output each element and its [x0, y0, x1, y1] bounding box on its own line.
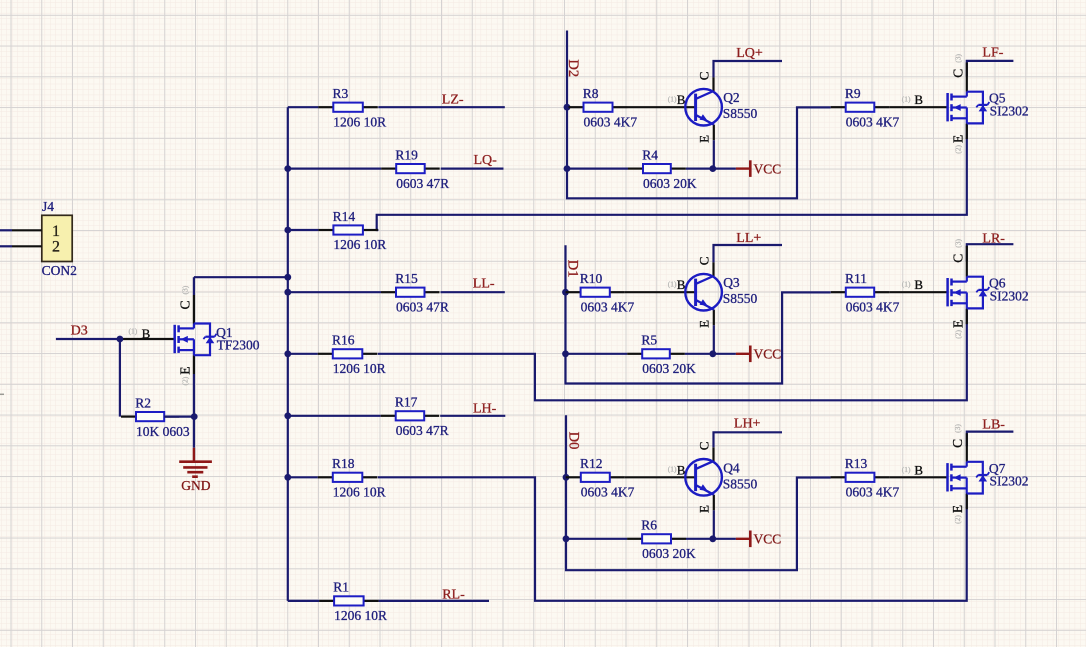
- svg-text:VCC: VCC: [754, 532, 782, 547]
- svg-text:(1): (1): [129, 327, 138, 336]
- wire base lead: [628, 106, 696, 108]
- transistor Q7 SI2302 (N-MOSFET): [948, 462, 990, 494]
- svg-text:1206 10R: 1206 10R: [333, 237, 386, 252]
- svg-text:LL-: LL-: [473, 277, 495, 292]
- svg-text:(3): (3): [953, 424, 962, 433]
- svg-text:S8550: S8550: [723, 291, 758, 306]
- svg-text:B: B: [677, 92, 686, 107]
- junction: [564, 165, 571, 172]
- resistor R13: [831, 473, 890, 482]
- wire: [288, 168, 381, 170]
- svg-text:R11: R11: [845, 271, 867, 286]
- resistor R12: [566, 473, 625, 482]
- wire gate lead: [889, 106, 948, 108]
- svg-text:(2): (2): [953, 144, 962, 153]
- svg-text:C: C: [950, 439, 965, 448]
- wire (edge stub): [0, 393, 4, 395]
- power VCC: [713, 160, 781, 177]
- wire: [377, 229, 379, 231]
- svg-text:(2): (2): [180, 376, 189, 385]
- wire: [164, 416, 194, 418]
- svg-text:GND: GND: [181, 478, 210, 493]
- junction: [709, 350, 716, 357]
- svg-text:0603 4K7: 0603 4K7: [846, 299, 900, 314]
- svg-text:C: C: [177, 300, 192, 309]
- wire: [685, 353, 713, 355]
- svg-text:R16: R16: [332, 333, 355, 348]
- wire: [379, 600, 489, 602]
- svg-text:E: E: [696, 320, 711, 328]
- resistor R6: [627, 534, 686, 543]
- svg-text:0603 4K7: 0603 4K7: [846, 485, 900, 500]
- svg-text:0603 47R: 0603 47R: [396, 423, 449, 438]
- wire: [288, 106, 319, 108]
- svg-text:R9: R9: [845, 86, 861, 101]
- wire MOSFET drain pin: [966, 246, 968, 277]
- wire: [193, 277, 195, 295]
- svg-text:TF2300: TF2300: [217, 338, 260, 353]
- resistor R17: [381, 411, 440, 420]
- svg-text:R15: R15: [395, 271, 418, 286]
- ground GND: [179, 448, 212, 493]
- svg-text:B: B: [677, 277, 686, 292]
- svg-text:0603 47R: 0603 47R: [396, 299, 449, 314]
- wire collector to net: [714, 61, 783, 77]
- resistor R1: [319, 596, 379, 605]
- junction: [563, 535, 570, 542]
- svg-text:R14: R14: [333, 209, 356, 224]
- svg-text:C: C: [696, 72, 711, 81]
- svg-text:LH-: LH-: [473, 402, 497, 417]
- svg-text:LZ-: LZ-: [442, 93, 464, 108]
- svg-text:0603 20K: 0603 20K: [642, 361, 696, 376]
- wire emitter: [713, 140, 715, 168]
- svg-text:(2): (2): [953, 515, 962, 524]
- svg-text:R18: R18: [332, 456, 355, 471]
- svg-text:(1): (1): [668, 94, 677, 103]
- svg-text:(1): (1): [668, 465, 677, 474]
- junction: [709, 535, 716, 542]
- svg-text:LH+: LH+: [734, 417, 761, 432]
- svg-text:(1): (1): [902, 465, 911, 474]
- wire: [566, 538, 627, 540]
- junction: [284, 474, 291, 481]
- svg-text:1206 10R: 1206 10R: [333, 485, 386, 500]
- svg-text:0603 4K7: 0603 4K7: [581, 485, 635, 500]
- resistor R8: [569, 103, 628, 112]
- svg-text:LL+: LL+: [736, 231, 761, 246]
- svg-text:LQ-: LQ-: [474, 153, 498, 168]
- wire: [440, 415, 505, 417]
- wire Q1 gate lead: [120, 338, 175, 340]
- wire collector pin: [712, 447, 714, 461]
- transistor Q5 SI2302 (N-MOSFET): [948, 92, 990, 124]
- transistor Q4 S8550 (PNP): [685, 459, 722, 496]
- wire R14 to Q5 source rail: [377, 124, 967, 230]
- svg-text:D1: D1: [565, 260, 581, 278]
- svg-text:C: C: [950, 254, 965, 263]
- svg-text:R4: R4: [642, 147, 658, 162]
- svg-text:0603 47R: 0603 47R: [396, 176, 449, 191]
- svg-text:D3: D3: [71, 324, 88, 339]
- wire: [288, 229, 319, 231]
- wire: [567, 168, 628, 170]
- wire Q1 drain pin: [193, 295, 195, 324]
- svg-text:R19: R19: [395, 147, 418, 162]
- svg-text:R10: R10: [580, 271, 603, 286]
- svg-text:0603 4K7: 0603 4K7: [846, 114, 900, 129]
- svg-text:RL-: RL-: [442, 588, 465, 603]
- svg-text:1206 10R: 1206 10R: [333, 114, 386, 129]
- wire to R2: [119, 339, 121, 417]
- wire emitter pin: [713, 310, 715, 326]
- svg-text:R8: R8: [583, 86, 599, 101]
- svg-text:S8550: S8550: [723, 106, 758, 121]
- svg-text:B: B: [914, 92, 923, 107]
- wire emitter pin: [713, 125, 715, 141]
- wire: [567, 106, 569, 108]
- svg-text:LF-: LF-: [982, 46, 1003, 61]
- svg-text:LR-: LR-: [982, 232, 1005, 247]
- svg-text:CON2: CON2: [42, 263, 77, 278]
- svg-text:E: E: [950, 320, 965, 328]
- power VCC: [713, 346, 781, 363]
- wire emitter: [713, 325, 715, 354]
- wire stage loop: [566, 415, 831, 570]
- wire base lead: [625, 291, 696, 293]
- resistor R4: [628, 164, 686, 173]
- wire R18 to Q7 source rail: [378, 477, 967, 601]
- wire: [288, 415, 381, 417]
- svg-text:D0: D0: [566, 432, 582, 450]
- transistor Q2 S8550 (PNP): [685, 89, 722, 126]
- svg-text:R2: R2: [135, 395, 151, 410]
- svg-text:C: C: [950, 69, 965, 78]
- svg-text:D2: D2: [565, 59, 581, 77]
- svg-text:(3): (3): [953, 238, 962, 247]
- junction: [284, 227, 291, 234]
- transistor Q6 SI2302 (N-MOSFET): [948, 277, 990, 309]
- junction: [191, 413, 198, 420]
- svg-text:1206 10R: 1206 10R: [333, 361, 386, 376]
- svg-text:E: E: [177, 367, 192, 375]
- wire: [686, 538, 713, 540]
- svg-text:LB-: LB-: [982, 417, 1005, 432]
- resistor R18: [318, 473, 378, 482]
- svg-text:R17: R17: [395, 395, 418, 410]
- svg-text:SI2302: SI2302: [990, 288, 1029, 303]
- wire: [564, 291, 566, 293]
- wire: [566, 353, 628, 355]
- svg-text:2: 2: [52, 238, 60, 255]
- wire Q1 drain to bus: [194, 276, 288, 278]
- wire: [288, 600, 319, 602]
- wire drain to net: [967, 61, 1014, 76]
- wire: [441, 291, 505, 293]
- resistor R10: [566, 288, 625, 297]
- svg-text:(2): (2): [953, 329, 962, 338]
- wire R16 to Q6 source rail: [378, 309, 967, 400]
- wire main bus vertical: [287, 107, 289, 601]
- wire: [441, 168, 504, 170]
- svg-text:E: E: [950, 505, 965, 513]
- wire MOSFET source pin: [966, 494, 968, 510]
- wire emitter pin: [713, 495, 715, 511]
- wire: [288, 476, 318, 478]
- svg-text:R6: R6: [641, 518, 657, 533]
- transistor Q1 TF2300 (N-MOSFET): [175, 324, 217, 356]
- wire: [288, 291, 381, 293]
- wire collector pin: [712, 262, 714, 276]
- svg-text:R12: R12: [580, 456, 603, 471]
- resistor R16: [318, 349, 378, 358]
- junction: [284, 350, 291, 357]
- wire collector to net: [714, 432, 783, 447]
- wire collector pin: [712, 77, 714, 91]
- junction: [562, 350, 569, 357]
- resistor R3: [318, 103, 378, 112]
- svg-text:R5: R5: [641, 333, 657, 348]
- svg-text:(3): (3): [953, 53, 962, 62]
- wire drain to net: [967, 244, 1014, 261]
- wire MOSFET source pin: [966, 123, 968, 139]
- junction: [284, 274, 291, 281]
- svg-text:Q2: Q2: [723, 90, 740, 105]
- svg-text:SI2302: SI2302: [990, 474, 1029, 489]
- junction: [563, 474, 570, 481]
- svg-text:S8550: S8550: [723, 476, 758, 491]
- wire gate lead: [889, 476, 947, 478]
- resistor R5: [627, 349, 685, 358]
- resistor R15: [381, 288, 440, 297]
- svg-text:C: C: [696, 257, 711, 266]
- wire stage loop: [567, 31, 831, 199]
- svg-text:VCC: VCC: [754, 347, 782, 362]
- resistor R19: [381, 164, 440, 173]
- svg-text:(1): (1): [902, 280, 911, 289]
- wire stage loop: [566, 245, 831, 383]
- svg-text:B: B: [914, 277, 923, 292]
- svg-text:R13: R13: [845, 456, 868, 471]
- resistor R9: [831, 103, 890, 112]
- svg-text:0603 4K7: 0603 4K7: [581, 299, 635, 314]
- junction: [284, 289, 291, 296]
- svg-text:R1: R1: [333, 580, 349, 595]
- wire: [193, 374, 195, 448]
- power VCC: [713, 531, 781, 548]
- connector J4 CON2: [0, 215, 72, 261]
- svg-text:C: C: [696, 442, 711, 451]
- svg-text:E: E: [696, 135, 711, 143]
- svg-text:Q4: Q4: [723, 460, 740, 475]
- wire MOSFET drain pin: [966, 433, 968, 462]
- svg-text:B: B: [677, 462, 686, 477]
- wire Q1 source pin: [193, 355, 195, 374]
- wire net D3: [56, 338, 120, 340]
- svg-text:0603 20K: 0603 20K: [643, 176, 697, 191]
- wire collector to net: [714, 245, 783, 262]
- svg-text:0603 4K7: 0603 4K7: [584, 114, 638, 129]
- wire MOSFET drain pin: [966, 63, 968, 92]
- svg-text:VCC: VCC: [754, 161, 782, 176]
- svg-text:(1): (1): [668, 279, 677, 288]
- junction: [284, 165, 291, 172]
- wire base lead: [625, 476, 696, 478]
- svg-text:B: B: [914, 462, 923, 477]
- junction: [562, 289, 569, 296]
- wire: [686, 168, 713, 170]
- transistor Q3 S8550 (PNP): [685, 274, 722, 311]
- junction: [284, 412, 291, 419]
- svg-text:Q3: Q3: [723, 275, 740, 290]
- resistor R14: [318, 225, 378, 234]
- svg-text:LQ+: LQ+: [736, 46, 763, 61]
- svg-text:10K 0603: 10K 0603: [136, 424, 190, 439]
- svg-text:SI2302: SI2302: [990, 103, 1029, 118]
- svg-text:E: E: [950, 135, 965, 143]
- svg-text:B: B: [142, 326, 151, 341]
- resistor R11: [831, 288, 889, 297]
- wire emitter: [713, 510, 715, 539]
- junction: [117, 336, 124, 343]
- svg-text:0603 20K: 0603 20K: [642, 546, 696, 561]
- junction: [564, 104, 571, 111]
- resistor R2: [121, 412, 179, 421]
- wire MOSFET source pin: [966, 308, 968, 324]
- svg-text:1206 10R: 1206 10R: [334, 608, 387, 623]
- svg-text:R3: R3: [333, 86, 349, 101]
- junction: [709, 165, 716, 172]
- wire: [288, 353, 318, 355]
- svg-text:(3): (3): [180, 285, 189, 294]
- wire gate lead: [889, 291, 948, 293]
- svg-text:J4: J4: [42, 199, 54, 214]
- svg-text:E: E: [696, 505, 711, 513]
- svg-text:(1): (1): [902, 95, 911, 104]
- wire: [565, 476, 567, 478]
- wire drain to net: [967, 432, 1014, 447]
- wire: [378, 106, 505, 108]
